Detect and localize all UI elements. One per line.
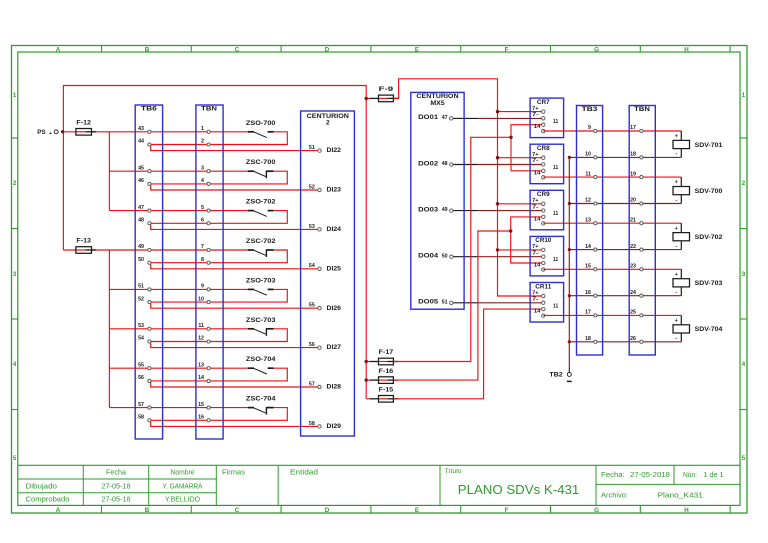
svg-text:11: 11 (553, 119, 558, 125)
wire to DI23 (151, 184, 320, 190)
svg-text:47: 47 (442, 115, 448, 121)
svg-text:9: 9 (588, 125, 591, 131)
terminal block TB6 (135, 105, 162, 439)
svg-text:55: 55 (138, 362, 144, 368)
svg-text:45: 45 (138, 165, 144, 171)
svg-text:F-15: F-15 (379, 387, 394, 394)
svg-text:14: 14 (534, 263, 540, 269)
terminal block TBN right (629, 106, 655, 356)
switch ZSO-703 (246, 277, 276, 295)
svg-text:B: B (145, 507, 150, 514)
svg-text:G: G (594, 46, 599, 53)
terminal TBN 9 (201, 284, 210, 291)
svg-text:TBN: TBN (201, 106, 217, 113)
pin 55 DI26 (309, 303, 342, 312)
svg-text:22: 22 (630, 244, 636, 250)
solenoid SDV-700 (673, 177, 723, 203)
svg-text:7-: 7- (532, 297, 539, 303)
plc CENTURION 2 (301, 111, 355, 436)
svg-text:51: 51 (442, 299, 448, 305)
wire CR10 coil supply (496, 248, 544, 251)
svg-text:Entidad: Entidad (290, 470, 318, 477)
terminal TB6 50 (138, 257, 151, 264)
svg-text:Título: Título (445, 468, 462, 475)
svg-text:4: 4 (13, 361, 17, 368)
svg-text:+: + (675, 134, 678, 140)
plc CENTURION MX5 (411, 92, 464, 309)
svg-text:11: 11 (553, 211, 558, 217)
svg-text:13: 13 (585, 217, 591, 223)
svg-text:1: 1 (13, 92, 17, 99)
junction F-17 (365, 360, 368, 363)
wire F-16 to CR9/CR10 pin 14 (393, 217, 543, 380)
svg-text:14: 14 (534, 216, 540, 222)
svg-text:17: 17 (585, 310, 591, 316)
svg-text:7+: 7+ (532, 106, 538, 112)
svg-text:F-13: F-13 (76, 238, 91, 245)
wire DO02 to CR8 (453, 164, 543, 166)
relay CR10 (530, 236, 564, 276)
svg-text:DI24: DI24 (327, 226, 342, 233)
svg-text:Nún:: Nún: (683, 472, 697, 479)
svg-text:F: F (505, 46, 509, 53)
pin DO04 50 (418, 253, 453, 260)
svg-text:F-17: F-17 (379, 349, 394, 356)
svg-text:50: 50 (138, 257, 144, 263)
svg-text:DO02: DO02 (418, 160, 438, 167)
terminal TBN 15 (198, 402, 210, 409)
svg-text:15: 15 (585, 264, 591, 270)
terminal TBN 7 (201, 244, 210, 251)
svg-text:C: C (235, 46, 240, 53)
svg-text:8: 8 (201, 257, 204, 263)
wire to DI29 (151, 420, 320, 426)
terminal TBN 13 (198, 362, 210, 369)
svg-text:DI29: DI29 (327, 423, 342, 430)
pin 53 DI24 (309, 224, 342, 233)
svg-text:12: 12 (198, 336, 204, 342)
wire CR11 contact to SDV (543, 314, 681, 316)
junction PS (61, 130, 64, 133)
svg-text:1 de 1: 1 de 1 (704, 472, 724, 479)
terminal TBN 12 (198, 336, 210, 343)
terminal TB6 57 (138, 402, 151, 409)
svg-text:54: 54 (309, 263, 315, 269)
pin 54 DI25 (309, 263, 342, 272)
terminal TB6 49 (138, 244, 151, 251)
wire feed row 53 (109, 328, 247, 330)
svg-text:D: D (325, 46, 330, 53)
wire CR8 contact to SDV (543, 176, 681, 178)
svg-text:5: 5 (201, 205, 204, 211)
wire F-9 to CR supply rail (393, 79, 543, 296)
svg-text:14: 14 (198, 375, 204, 381)
wire to DI26 (151, 302, 320, 308)
svg-text:26: 26 (630, 336, 636, 342)
svg-text:Fecha:: Fecha: (601, 472, 625, 479)
svg-text:23: 23 (630, 264, 636, 270)
solenoid SDV-702 (673, 223, 723, 249)
svg-text:2: 2 (742, 180, 746, 187)
pin 57 DI28 (309, 381, 342, 390)
svg-text:CR9: CR9 (537, 191, 550, 198)
svg-text:F-9: F-9 (379, 86, 394, 93)
wire feed row 45 (109, 170, 247, 172)
solenoid SDV-704 (673, 315, 723, 341)
svg-text:+: + (675, 226, 678, 232)
svg-text:3: 3 (201, 165, 204, 171)
svg-text:18: 18 (585, 336, 591, 342)
svg-text:CR10: CR10 (535, 237, 551, 244)
svg-text:G: G (594, 507, 599, 514)
wire to DI22 (151, 145, 320, 151)
svg-text:54: 54 (138, 336, 144, 342)
wire to DI28 (151, 381, 320, 387)
svg-text:2: 2 (13, 180, 17, 187)
svg-text:DI28: DI28 (327, 384, 342, 391)
terminal TB6 48 (138, 218, 151, 225)
pin DO03 49 (418, 206, 453, 213)
svg-text:+: + (675, 272, 678, 278)
svg-text:DO01: DO01 (418, 114, 438, 121)
wire to DI27 (151, 342, 320, 348)
svg-text:DI22: DI22 (327, 147, 342, 154)
terminal TB3 10 (585, 152, 597, 159)
svg-text:25: 25 (630, 310, 636, 316)
svg-text:Y. GAMARRA: Y. GAMARRA (163, 484, 203, 491)
svg-text:Fecha: Fecha (106, 470, 126, 477)
pin DO02 48 (418, 160, 453, 167)
svg-text:10: 10 (198, 296, 204, 302)
svg-text:E: E (415, 46, 419, 53)
wire DO05 to CR11 (453, 302, 543, 304)
svg-text:4: 4 (742, 361, 746, 368)
svg-text:5: 5 (742, 455, 746, 462)
wire feed row 55 (109, 367, 247, 369)
terminal TBN 25 (630, 310, 643, 317)
terminal TB6 43 (138, 126, 151, 133)
svg-text:-: - (675, 243, 677, 249)
svg-text:57: 57 (309, 381, 315, 387)
wire CR9 contact to SDV (543, 222, 681, 224)
svg-text:52: 52 (138, 296, 144, 302)
svg-text:+: + (675, 318, 678, 324)
svg-text:58: 58 (309, 421, 315, 427)
svg-text:49: 49 (138, 244, 144, 250)
svg-text:7+: 7+ (532, 198, 538, 204)
wire to DI24 (151, 223, 320, 229)
svg-text:55: 55 (309, 303, 315, 309)
svg-text:Firmas: Firmas (222, 470, 246, 477)
wire CR10 contact to SDV (543, 268, 681, 270)
fuse F-12 (76, 120, 96, 136)
svg-text:6: 6 (201, 218, 204, 224)
svg-text:C: C (235, 507, 240, 514)
svg-text:14: 14 (534, 309, 540, 315)
wire F-17 to CR7/CR8 pin 14 (393, 125, 543, 362)
terminal TB6 54 (138, 336, 151, 343)
svg-text:48: 48 (138, 218, 144, 224)
svg-text:TB3: TB3 (582, 106, 598, 113)
terminal TBN 11 (198, 323, 210, 330)
terminal TB6 51 (138, 284, 151, 291)
svg-text:3: 3 (742, 271, 746, 278)
wire feed row 47 (109, 210, 247, 212)
junction F-16 (365, 378, 368, 381)
svg-text:44: 44 (138, 139, 144, 145)
svg-text:TB6: TB6 (141, 106, 157, 113)
svg-text:MX5: MX5 (430, 100, 445, 107)
svg-text:46: 46 (138, 178, 144, 184)
terminal TBN 26 (630, 336, 643, 343)
svg-text:11: 11 (585, 171, 591, 177)
wire switch return row 58 (149, 408, 287, 421)
svg-text:4: 4 (201, 178, 204, 184)
ground TB2 (549, 368, 571, 382)
wire switch return row 52 (149, 289, 287, 302)
svg-text:ZSO-702: ZSO-702 (246, 199, 276, 206)
switch ZSC-703 (246, 317, 276, 336)
svg-text:7+: 7+ (532, 244, 538, 250)
svg-text:F-12: F-12 (76, 120, 91, 127)
svg-text:DO05: DO05 (418, 299, 438, 306)
pin DO05 51 (418, 299, 453, 306)
svg-text:19: 19 (630, 171, 636, 177)
svg-text:14: 14 (534, 170, 540, 176)
fuse F-9 (367, 86, 399, 102)
svg-text:7+: 7+ (532, 290, 538, 296)
svg-text:2: 2 (201, 139, 204, 145)
switch ZSC-702 (246, 238, 276, 257)
svg-text:58: 58 (138, 415, 144, 421)
wire CR7 coil supply (496, 110, 544, 113)
terminal TBN 18 (630, 152, 643, 159)
terminal TBN 24 (630, 290, 643, 297)
pin 58 DI29 (309, 421, 342, 430)
svg-text:43: 43 (138, 126, 144, 132)
terminal TB6 45 (138, 165, 151, 172)
svg-text:TB2: TB2 (549, 371, 563, 378)
svg-text:16: 16 (585, 290, 591, 296)
svg-text:F: F (505, 507, 509, 514)
svg-text:-: - (675, 197, 677, 203)
svg-text:ZSC-702: ZSC-702 (246, 238, 276, 245)
svg-text:ZSO-703: ZSO-703 (246, 277, 276, 284)
switch ZSO-704 (246, 356, 276, 374)
terminal TB6 53 (138, 323, 151, 330)
svg-text:11: 11 (553, 165, 558, 171)
svg-text:DO04: DO04 (418, 253, 438, 260)
svg-text:ZSC-703: ZSC-703 (246, 317, 276, 324)
title block (18, 465, 740, 505)
wire DO01 to CR7 (453, 117, 543, 119)
svg-text:48: 48 (442, 161, 448, 167)
svg-text:SDV-700: SDV-700 (695, 188, 723, 195)
svg-text:15: 15 (198, 402, 204, 408)
solenoid SDV-703 (673, 269, 723, 295)
svg-text:SDV-704: SDV-704 (695, 326, 723, 333)
svg-text:5: 5 (13, 455, 17, 462)
terminal TBN 2 (201, 139, 210, 146)
svg-text:DI23: DI23 (327, 187, 342, 194)
wire feed row 57 (109, 407, 247, 409)
terminal TBN 10 (198, 296, 210, 303)
wire switch return row 56 (149, 368, 287, 381)
svg-text:7+: 7+ (532, 152, 538, 158)
terminal TB6 55 (138, 362, 151, 369)
svg-text:PLANO SDVs K-431: PLANO SDVs K-431 (458, 482, 580, 497)
junction TB2 bus row 12 (568, 202, 571, 205)
svg-text:CR11: CR11 (535, 283, 551, 290)
terminal TB3 18 (585, 336, 597, 343)
svg-text:Dibujado: Dibujado (26, 484, 58, 491)
svg-text:52: 52 (309, 184, 315, 190)
svg-text:DI25: DI25 (327, 265, 342, 272)
wire switch return row 46 (149, 171, 287, 184)
svg-text:18: 18 (630, 152, 636, 158)
svg-text:27-05-18: 27-05-18 (102, 484, 131, 491)
wire PS top rail (63, 86, 366, 399)
svg-text:SDV-703: SDV-703 (695, 280, 723, 287)
terminal TB6 47 (138, 205, 151, 212)
terminal TBN 22 (630, 244, 643, 251)
terminal TBN 1 (201, 126, 210, 133)
junction F-9 (365, 97, 368, 100)
svg-text:14: 14 (585, 244, 591, 250)
svg-text:-: - (675, 151, 677, 157)
wire F-15 to CR11 pin 14 (393, 309, 543, 399)
switch ZSC-704 (246, 396, 276, 415)
svg-text:ZSO-704: ZSO-704 (246, 356, 276, 363)
terminal TBN 16 (198, 415, 210, 422)
terminal TB6 52 (138, 296, 151, 303)
svg-text:51: 51 (138, 284, 144, 290)
wire CR7 contact to SDV (543, 130, 681, 132)
fuse F-17 (367, 349, 399, 365)
wire PS bus to F-13 (62, 132, 64, 250)
svg-text:Y.BELLIDO: Y.BELLIDO (165, 497, 201, 504)
svg-text:11: 11 (553, 303, 558, 309)
svg-text:27-05-2018: 27-05-2018 (630, 472, 670, 479)
terminal TBN 3 (201, 165, 210, 172)
svg-text:57: 57 (138, 402, 144, 408)
svg-text:CR7: CR7 (537, 99, 550, 106)
svg-text:Archivo:: Archivo: (601, 493, 628, 500)
terminal TBN 19 (630, 171, 643, 178)
wire feed row 43 (63, 131, 247, 133)
switch ZSC-700 (246, 159, 276, 178)
svg-text:50: 50 (442, 253, 448, 259)
junction TB2 bus row 14 (568, 248, 571, 251)
wire to DI25 (151, 263, 320, 269)
terminal TBN 20 (630, 198, 643, 205)
svg-text:CR8: CR8 (537, 145, 550, 152)
wire F-13 distribution bus (108, 250, 110, 408)
wire feed row 51 (109, 288, 247, 290)
svg-text:B: B (145, 46, 150, 53)
terminal TBN 21 (630, 217, 643, 224)
wire SDV return row 18 (569, 156, 681, 158)
wire feed row 49 (63, 249, 247, 251)
wire SDV return row 24 (569, 295, 681, 297)
svg-text:A: A (56, 46, 61, 53)
junction TB2 bus row 18 (568, 340, 571, 343)
svg-text:DO03: DO03 (418, 206, 438, 213)
pin DO01 47 (418, 114, 453, 121)
relay CR9 (530, 190, 564, 230)
svg-text:A: A (56, 507, 61, 514)
svg-text:F-16: F-16 (379, 368, 394, 375)
terminal block TB3 (577, 106, 603, 356)
svg-text:11: 11 (553, 257, 558, 263)
junction TB2 bus row 10 (568, 156, 571, 159)
terminal TB6 44 (138, 139, 151, 146)
terminal block TBN left (196, 105, 223, 439)
svg-text:Nombre: Nombre (171, 470, 195, 477)
svg-text:24: 24 (630, 290, 636, 296)
wire switch return row 50 (149, 250, 287, 263)
terminal TBN 6 (201, 218, 210, 225)
wire DO04 to CR10 (453, 256, 543, 258)
svg-text:14: 14 (534, 124, 540, 130)
svg-text:56: 56 (138, 375, 144, 381)
svg-text:-: - (675, 336, 677, 342)
wire TB2 ground bus (568, 157, 570, 367)
relay CR7 (530, 98, 564, 138)
svg-text:+: + (675, 180, 678, 186)
terminal TB3 12 (585, 198, 597, 205)
svg-text:Comprobado: Comprobado (26, 497, 70, 504)
svg-text:H: H (684, 507, 689, 514)
svg-text:17: 17 (630, 125, 636, 131)
wire CR8 coil supply (496, 156, 544, 159)
node PS (37, 129, 58, 137)
svg-text:7-: 7- (532, 112, 539, 118)
terminal TB6 56 (138, 375, 151, 382)
terminal TB3 13 (585, 217, 597, 224)
terminal TBN 23 (630, 264, 643, 271)
svg-text:49: 49 (442, 207, 448, 213)
svg-text:7-: 7- (532, 250, 539, 256)
terminal TB3 15 (585, 264, 597, 271)
switch ZSO-700 (246, 120, 276, 138)
wire switch return row 54 (149, 329, 287, 342)
wire switch return row 44 (149, 132, 287, 145)
svg-text:DI26: DI26 (327, 305, 342, 312)
wire DO03 to CR9 (453, 210, 543, 212)
terminal TBN 4 (201, 178, 210, 185)
svg-text:ZSC-704: ZSC-704 (246, 396, 276, 403)
terminal TBN 17 (630, 125, 643, 132)
fuse F-13 (76, 238, 96, 254)
svg-text:10: 10 (585, 152, 591, 158)
terminal TBN 8 (201, 257, 210, 264)
wire CR9 coil supply (496, 202, 544, 205)
svg-text:21: 21 (630, 217, 636, 223)
terminal TB3 9 (588, 125, 597, 132)
svg-text:7-: 7- (532, 204, 539, 210)
svg-text:H: H (684, 46, 689, 53)
solenoid SDV-701 (673, 131, 723, 157)
svg-text:53: 53 (138, 323, 144, 329)
svg-text:-: - (675, 290, 677, 296)
terminal TB3 14 (585, 244, 597, 251)
relay CR8 (530, 144, 564, 184)
pin 52 DI23 (309, 184, 342, 193)
svg-text:D: D (325, 507, 330, 514)
svg-text:TBN: TBN (634, 106, 650, 113)
svg-text:12: 12 (585, 198, 591, 204)
